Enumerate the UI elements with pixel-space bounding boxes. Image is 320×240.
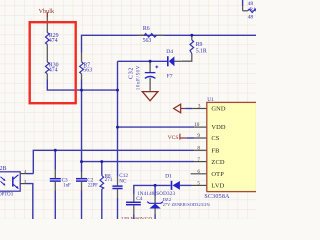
svg-text:10: 10 <box>194 122 200 128</box>
capacitor C32 <box>128 61 158 91</box>
svg-text:U1: U1 <box>207 97 214 103</box>
svg-text:FB: FB <box>211 147 219 154</box>
svg-text:SC3058A: SC3058A <box>204 194 230 200</box>
svg-text:F7: F7 <box>167 74 173 80</box>
svg-text:D4: D4 <box>166 49 173 55</box>
pin OTP stub <box>191 173 207 175</box>
svg-text:7: 7 <box>197 157 200 163</box>
resistor R29 <box>46 32 59 44</box>
opto pin 4 <box>20 169 33 174</box>
wire top horizontal net <box>82 35 257 52</box>
svg-text:C4: C4 <box>136 196 142 202</box>
svg-text:139-E/60VCO: 139-E/60VCO <box>121 216 153 219</box>
ground arrow GND pin <box>174 104 207 113</box>
svg-text:474: 474 <box>49 38 58 44</box>
diode D1 <box>137 174 180 198</box>
svg-text:474: 474 <box>49 67 58 73</box>
IC U1 <box>204 97 256 200</box>
svg-text:GND: GND <box>211 106 226 113</box>
svg-text:563: 563 <box>83 67 92 73</box>
red highlight rectangle <box>30 22 76 103</box>
svg-text:5.1R: 5.1R <box>196 49 207 55</box>
svg-text:CS: CS <box>211 135 219 142</box>
svg-text:OTP: OTP <box>211 171 224 178</box>
background grid <box>0 0 256 219</box>
svg-text:8: 8 <box>197 145 200 151</box>
wire D4 anode net <box>118 60 168 62</box>
power port Vbulk <box>39 8 55 17</box>
optocoupler U2B <box>0 166 20 198</box>
zener D22 <box>147 185 210 219</box>
svg-text:6: 6 <box>197 169 200 175</box>
svg-text:10uF/50V: 10uF/50V <box>137 65 142 90</box>
svg-text:9: 9 <box>197 133 200 139</box>
resistor R6 <box>138 26 165 44</box>
svg-text:VDD: VDD <box>211 124 226 131</box>
wire R29 to R30 <box>46 44 48 61</box>
svg-text:1N4148/SOD323: 1N4148/SOD323 <box>137 191 176 197</box>
wire line B vertical <box>117 61 119 177</box>
pin numbers <box>194 103 201 186</box>
svg-text:271: 271 <box>105 177 113 183</box>
resistor R7 <box>80 53 92 80</box>
wire R30 bottom to corner <box>46 74 48 80</box>
svg-text:NC: NC <box>119 178 127 184</box>
svg-text:5: 5 <box>197 181 200 187</box>
capacitor C4 <box>126 194 143 219</box>
svg-text:22PF: 22PF <box>88 184 98 189</box>
svg-text:U2B: U2B <box>0 166 7 172</box>
partial resistor top right <box>243 0 257 20</box>
svg-text:27V ZENER/SOD323/2%: 27V ZENER/SOD323/2% <box>163 202 211 207</box>
opto pin 3 wire down <box>20 179 33 219</box>
svg-text:D1: D1 <box>165 174 172 180</box>
pin names <box>211 106 226 190</box>
wire VDD net <box>118 126 195 128</box>
svg-text:OPTO3: OPTO3 <box>0 192 14 197</box>
resistor R30 <box>46 62 59 74</box>
svg-text:R9: R9 <box>196 42 203 48</box>
svg-text:48: 48 <box>248 14 254 20</box>
svg-text:48: 48 <box>248 1 254 7</box>
svg-text:3: 3 <box>198 103 201 109</box>
wire Vbulk to R29 <box>46 17 48 32</box>
wire ZCD net <box>82 161 195 163</box>
svg-text:ZCD: ZCD <box>211 159 224 166</box>
wire LVD net <box>134 185 171 194</box>
svg-text:R6: R6 <box>143 26 150 32</box>
resistor R8 <box>100 162 113 219</box>
ground symbol <box>142 92 158 101</box>
svg-text:C32: C32 <box>128 67 134 79</box>
capacitor C12 <box>112 173 128 219</box>
svg-text:1nF: 1nF <box>63 183 71 188</box>
svg-text:LVD: LVD <box>211 183 224 190</box>
wire line A vertical <box>81 80 83 173</box>
svg-text:R1: R1 <box>249 7 256 13</box>
wire FB net <box>33 150 194 173</box>
capacitor C2 <box>76 172 98 219</box>
svg-text:563: 563 <box>143 38 152 44</box>
resistor R9 <box>182 35 207 61</box>
diode D4 <box>166 49 174 80</box>
svg-text:VCS: VCS <box>168 135 179 141</box>
capacitor C3 <box>50 150 71 219</box>
net label VCS and CS wire <box>168 134 207 141</box>
